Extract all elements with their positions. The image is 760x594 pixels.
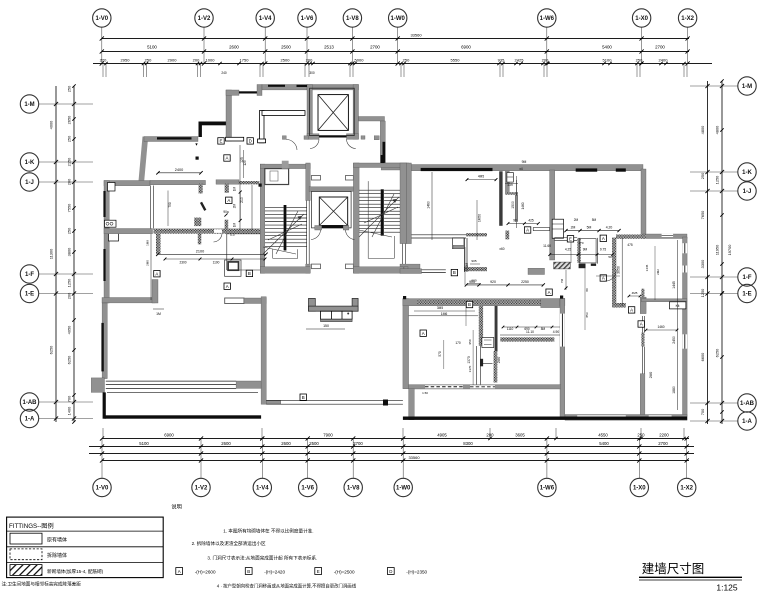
svg-text:x4: x4 (519, 167, 523, 171)
svg-text:3050: 3050 (617, 266, 621, 274)
notes text block (171, 503, 427, 590)
svg-text:A: A (630, 308, 633, 313)
svg-text:1-K: 1-K (742, 170, 752, 176)
svg-text:B: B (468, 302, 471, 307)
top-right block extra dims (505, 176, 518, 196)
svg-text:920: 920 (490, 280, 496, 284)
svg-text:4.25: 4.25 (565, 248, 571, 252)
svg-text:1-J: 1-J (25, 180, 34, 186)
svg-text:E: E (317, 569, 320, 574)
stair 1 treads (265, 207, 307, 246)
svg-text:1-F: 1-F (25, 272, 34, 278)
svg-text:5M: 5M (592, 218, 597, 222)
svg-text:1-E: 1-E (25, 292, 34, 298)
svg-text:1M6: 1M6 (441, 312, 448, 316)
svg-text:1-V2: 1-V2 (198, 16, 211, 22)
svg-text:1500: 1500 (511, 201, 515, 209)
left living room, balcony window and slab (91, 303, 261, 419)
svg-text:1400: 1400 (67, 406, 72, 415)
svg-text:B: B (247, 569, 250, 574)
svg-text:950: 950 (468, 339, 472, 344)
right axis dimension band (690, 79, 738, 424)
svg-text:A: A (548, 290, 551, 295)
svg-text:200: 200 (542, 57, 549, 62)
svg-text:A: A (602, 236, 605, 241)
svg-text:1-F: 1-F (743, 275, 752, 281)
svg-text:1000: 1000 (206, 57, 216, 62)
svg-text:1-V6: 1-V6 (301, 486, 314, 492)
svg-text:5000: 5000 (355, 57, 365, 62)
svg-text:E: E (569, 236, 572, 241)
svg-text:220: 220 (100, 57, 107, 62)
top axis circles (93, 9, 697, 27)
svg-text:4800: 4800 (700, 125, 705, 134)
svg-text:2700: 2700 (655, 45, 665, 50)
svg-text:1-A: 1-A (742, 419, 752, 425)
svg-text:9M: 9M (522, 160, 527, 164)
svg-text:1-X0: 1-X0 (633, 486, 646, 492)
svg-text:1M: 1M (233, 222, 237, 227)
svg-text:6900: 6900 (461, 45, 471, 50)
svg-text:B: B (248, 271, 251, 276)
svg-text:1-W6: 1-W6 (540, 16, 555, 22)
svg-text:x60: x60 (499, 247, 504, 251)
svg-text:1M9: 1M9 (146, 240, 150, 246)
svg-text:4000: 4000 (49, 120, 54, 129)
svg-text:1-V0: 1-V0 (96, 486, 109, 492)
svg-text:2300: 2300 (179, 261, 186, 265)
svg-text:5400: 5400 (602, 45, 612, 50)
svg-text:1445: 1445 (645, 264, 649, 271)
svg-text:说明: 说明 (171, 503, 181, 511)
extra tiny dimension ticks and texts upper-left cluster (146, 150, 267, 266)
svg-text:A: A (422, 331, 425, 336)
svg-text:4050: 4050 (67, 325, 72, 334)
svg-text:4550: 4550 (598, 432, 608, 437)
svg-text:1-V4: 1-V4 (259, 16, 272, 22)
svg-text:1110: 1110 (507, 327, 514, 331)
svg-text:1750: 1750 (240, 57, 250, 62)
svg-text:90: 90 (513, 219, 517, 223)
svg-text:210: 210 (240, 197, 244, 203)
svg-text:1-A: 1-A (25, 417, 35, 423)
svg-text:2513: 2513 (324, 45, 334, 50)
svg-text:-(H)=2420: -(H)=2420 (264, 570, 285, 575)
below-core utility boxes (225, 260, 241, 276)
svg-text:905: 905 (471, 259, 476, 263)
svg-text:1-V8: 1-V8 (346, 16, 359, 22)
svg-text:200: 200 (486, 432, 494, 437)
extra detail bottom-middle block (414, 306, 560, 395)
svg-text:新砌墙体(加厚15-4, 配筋砌): 新砌墙体(加厚15-4, 配筋砌) (47, 568, 104, 575)
svg-text:2M: 2M (233, 203, 237, 208)
svg-text:A: A (155, 271, 158, 276)
svg-text:原有墙体: 原有墙体 (47, 537, 67, 544)
svg-text:9M: 9M (583, 248, 588, 252)
svg-text:1-V6: 1-V6 (301, 16, 314, 22)
svg-text:6250: 6250 (715, 348, 720, 357)
svg-text:80: 80 (585, 288, 589, 292)
svg-text:2500: 2500 (281, 45, 291, 50)
svg-text:250: 250 (403, 57, 410, 62)
svg-text:-(H)=2500: -(H)=2500 (334, 570, 355, 575)
svg-text:2M0: 2M0 (649, 372, 653, 379)
upper-left block: slanted outer wall (139, 137, 149, 182)
right apartment walls (612, 235, 687, 421)
top elevator shaft (297, 85, 359, 140)
svg-text:5100: 5100 (147, 45, 157, 50)
svg-text:5400: 5400 (599, 441, 609, 446)
svg-text:2M: 2M (574, 218, 579, 222)
svg-text:2M: 2M (571, 226, 576, 230)
svg-text:6250: 6250 (49, 345, 54, 354)
svg-text:3300: 3300 (700, 259, 705, 268)
bottom band extension ticks above (102, 428, 104, 439)
svg-text:2100: 2100 (196, 249, 204, 253)
svg-text:170: 170 (578, 241, 583, 245)
svg-text:4905: 4905 (437, 432, 447, 437)
courtyard fence (266, 400, 403, 402)
svg-text:2600: 2600 (281, 441, 291, 446)
extra detail right zone (578, 241, 678, 331)
svg-text:5M: 5M (587, 226, 592, 230)
legend table (FITTINGS) (2, 517, 164, 587)
svg-text:1-X0: 1-X0 (635, 16, 648, 22)
svg-text:2150: 2150 (67, 157, 72, 166)
svg-text:A: A (526, 228, 529, 233)
plan interior dimension lines (151, 145, 677, 410)
svg-text:7550: 7550 (67, 203, 72, 212)
svg-text:700: 700 (67, 395, 72, 402)
svg-text:750: 750 (168, 202, 172, 208)
svg-text:3. 门洞尺寸表示法:从地面完成面计起 所有下表示标系.: 3. 门洞尺寸表示法:从地面完成面计起 所有下表示标系. (207, 555, 317, 562)
svg-text:250: 250 (67, 135, 72, 142)
top-right block left wall (407, 163, 514, 244)
svg-text:4.90: 4.90 (553, 330, 560, 334)
svg-text:4M5: 4M5 (478, 175, 484, 179)
svg-text:2600: 2600 (221, 441, 231, 446)
svg-text:50: 50 (608, 255, 612, 259)
svg-text:1-X2: 1-X2 (680, 486, 693, 492)
svg-text:5100: 5100 (603, 57, 613, 62)
svg-text:1-W6: 1-W6 (540, 486, 555, 492)
svg-text:6600: 6600 (700, 352, 705, 361)
svg-text:1-AB: 1-AB (22, 400, 37, 406)
svg-text:1-K: 1-K (25, 160, 35, 166)
right apartment bottom wall with windows (565, 415, 687, 421)
svg-text:1-V2: 1-V2 (195, 486, 208, 492)
svg-text:1-M: 1-M (742, 84, 752, 90)
svg-text:D: D (389, 569, 392, 574)
svg-text:11300: 11300 (49, 248, 54, 259)
svg-text:200: 200 (306, 57, 313, 62)
svg-text:拆除墙体: 拆除墙体 (47, 552, 67, 559)
svg-text:935: 935 (498, 57, 505, 62)
svg-text:700: 700 (700, 408, 705, 415)
svg-text:2950: 2950 (121, 57, 131, 62)
svg-text:1460: 1460 (427, 201, 431, 209)
left axis circles (20, 95, 38, 428)
svg-text:1250: 1250 (715, 175, 720, 184)
svg-text:2400: 2400 (175, 168, 183, 172)
bottom slab edge right part (403, 417, 687, 420)
top-right block outer walls (381, 163, 687, 239)
svg-text:D: D (249, 139, 252, 144)
svg-text:2450: 2450 (672, 336, 676, 344)
svg-text:5550: 5550 (451, 57, 461, 62)
svg-text:2M2: 2M2 (656, 269, 660, 275)
svg-text:2200: 2200 (659, 432, 669, 437)
svg-text:2500: 2500 (309, 441, 319, 446)
svg-text:2. 拆除墙体以及泥渣全部清运出小区: 2. 拆除墙体以及泥渣全部清运出小区 (192, 540, 266, 547)
bottom axis dimension band (89, 432, 694, 478)
svg-text:B: B (453, 270, 456, 275)
svg-text:3605: 3605 (515, 432, 525, 437)
svg-text:1-X2: 1-X2 (681, 16, 694, 22)
svg-text:690: 690 (524, 327, 530, 331)
svg-text:A: A (226, 156, 229, 161)
left axis dimension band (39, 84, 93, 423)
svg-text:7650: 7650 (700, 210, 705, 219)
svg-text:33560: 33560 (410, 33, 422, 38)
svg-text:5100: 5100 (139, 441, 149, 446)
svg-text:-(H)=2600: -(H)=2600 (195, 570, 216, 575)
walls below core (225, 297, 281, 405)
svg-text:1M: 1M (156, 312, 161, 316)
top axis dimension band (93, 28, 712, 78)
svg-text:4.20: 4.20 (606, 226, 613, 230)
connector walls right of elevator (195, 111, 385, 163)
svg-text:570: 570 (438, 351, 442, 357)
svg-text:2650: 2650 (67, 115, 72, 124)
svg-text:4800: 4800 (715, 125, 720, 134)
middle elevator shaft (309, 187, 354, 230)
svg-text:1. 本图所有均砌墙体在 不得以比例度量计准.: 1. 本图所有均砌墙体在 不得以比例度量计准. (223, 528, 313, 535)
svg-text:200: 200 (67, 178, 72, 185)
svg-text:200: 200 (67, 292, 72, 299)
svg-text:A: A (640, 322, 643, 327)
svg-text:425: 425 (528, 219, 534, 223)
svg-text:2700: 2700 (658, 441, 668, 446)
svg-text:1-E: 1-E (742, 292, 751, 298)
svg-text:7900: 7900 (323, 432, 333, 437)
svg-text:4 · 按户型朝向检查门洞移画或从地面完成面计算,不得擅自: 4 · 按户型朝向检查门洞移画或从地面完成面计算,不得擅自更改门洞画线 (217, 583, 357, 590)
svg-text:1-W0: 1-W0 (396, 486, 411, 492)
svg-text:A: A (602, 276, 605, 281)
svg-text:建墙尺寸图: 建墙尺寸图 (642, 562, 705, 576)
svg-text:11.60: 11.60 (543, 244, 551, 248)
door swing arcs (214, 139, 617, 281)
svg-text:250: 250 (636, 57, 643, 62)
svg-text:-(H)=2350: -(H)=2350 (406, 570, 427, 575)
stair core 2 (353, 155, 420, 273)
svg-text:1370: 1370 (468, 365, 472, 372)
small column dots (196, 157, 199, 160)
svg-text:1100: 1100 (213, 261, 220, 265)
svg-text:4M5: 4M5 (632, 291, 638, 295)
AC platform (U-shape with hanging boxes) (309, 298, 359, 321)
svg-text:FITTINGS--图例: FITTINGS--图例 (9, 522, 54, 530)
svg-text:3800: 3800 (67, 247, 72, 256)
svg-text:1445: 1445 (672, 281, 676, 289)
svg-text:b-3: b-3 (231, 233, 235, 237)
svg-text:2400: 2400 (659, 57, 669, 62)
svg-text:150: 150 (323, 324, 329, 328)
svg-text:E: E (220, 139, 223, 144)
svg-text:A: A (226, 284, 229, 289)
svg-text:注:卫生间地面与相邻标高完成降落差距: 注:卫生间地面与相邻标高完成降落差距 (2, 581, 82, 588)
stair 2 treads (359, 190, 400, 232)
svg-text:1-W0: 1-W0 (391, 16, 406, 22)
central bathroom cluster walls (464, 170, 598, 290)
right axis circles (738, 77, 756, 430)
svg-text:90a: 90a (223, 210, 229, 214)
svg-text:1-V0: 1-V0 (95, 16, 108, 22)
svg-text:250: 250 (700, 172, 705, 179)
corridor void edge lines (407, 234, 466, 236)
drawing title (639, 562, 742, 593)
svg-text:1M50: 1M50 (478, 214, 482, 222)
svg-text:1460: 1460 (521, 202, 525, 209)
svg-text:1460: 1460 (657, 325, 664, 329)
svg-text:1250: 1250 (700, 288, 705, 297)
svg-text:1-V8: 1-V8 (347, 486, 360, 492)
extra detail central cluster (465, 167, 614, 285)
svg-text:6250: 6250 (67, 355, 72, 364)
svg-text:2500: 2500 (281, 57, 291, 62)
svg-text:1370: 1370 (467, 356, 471, 364)
svg-text:300: 300 (309, 71, 315, 75)
svg-text:9.75: 9.75 (600, 248, 606, 252)
svg-text:2425: 2425 (515, 57, 525, 62)
svg-text:B: B (302, 395, 305, 400)
svg-text:7M: 7M (560, 278, 564, 283)
bottom-middle block walls (403, 298, 565, 420)
svg-text:1:125: 1:125 (716, 583, 738, 593)
svg-text:3M5: 3M5 (437, 306, 443, 310)
svg-text:1880: 1880 (672, 386, 676, 394)
svg-text:8M: 8M (541, 327, 546, 331)
svg-text:19700: 19700 (727, 244, 732, 256)
svg-text:853: 853 (585, 312, 589, 317)
svg-text:A: A (178, 569, 181, 574)
svg-text:250: 250 (67, 85, 72, 92)
small boxed labels (218, 138, 224, 144)
svg-text:A: A (227, 198, 230, 203)
svg-text:1-J: 1-J (743, 189, 752, 195)
bottom axis circles (93, 478, 696, 496)
svg-text:11950: 11950 (715, 244, 720, 255)
stair core 1 (260, 161, 353, 274)
svg-text:33560: 33560 (408, 455, 420, 460)
svg-text:475: 475 (627, 243, 633, 247)
svg-text:1M: 1M (233, 186, 237, 191)
svg-text:9M: 9M (465, 262, 469, 267)
svg-text:1.50: 1.50 (422, 391, 428, 395)
upper-left interior walls and hatched new walls (144, 85, 308, 271)
svg-text:250: 250 (145, 57, 152, 62)
svg-text:2250: 2250 (521, 280, 529, 284)
svg-text:240: 240 (221, 71, 227, 75)
svg-text:8300: 8300 (463, 441, 473, 446)
svg-text:2M0: 2M0 (146, 260, 150, 266)
svg-text:2600: 2600 (229, 45, 239, 50)
svg-text:1-M: 1-M (24, 102, 34, 108)
svg-text:250: 250 (67, 227, 72, 234)
svg-text:170: 170 (455, 341, 461, 345)
svg-text:6900: 6900 (164, 432, 174, 437)
svg-text:1-AB: 1-AB (740, 401, 755, 407)
svg-text:2M0: 2M0 (497, 357, 501, 364)
svg-text:1-V4: 1-V4 (256, 486, 269, 492)
svg-text:1250: 1250 (67, 278, 72, 287)
svg-text:905: 905 (469, 280, 475, 284)
svg-text:2700: 2700 (370, 45, 380, 50)
svg-text:2900: 2900 (168, 57, 178, 62)
upper-left block walls (102, 181, 158, 304)
